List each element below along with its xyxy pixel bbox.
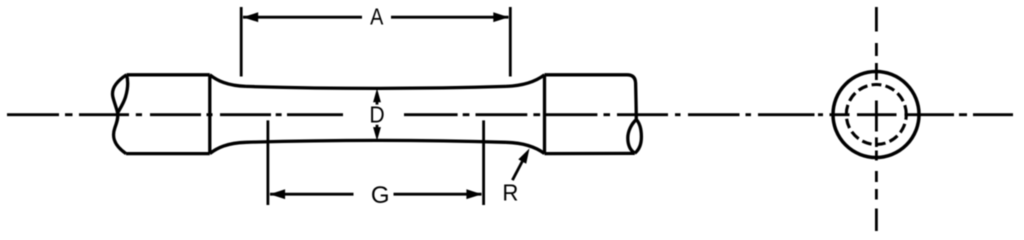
reduced section top line (246, 86, 506, 88)
top fillet right (506, 75, 545, 87)
arrowhead R leader (518, 148, 529, 163)
dimension G extension line right (482, 120, 485, 205)
left end outer break arc (112, 75, 126, 154)
right grip top line with rounded corner (545, 75, 637, 120)
right end outer break arc (635, 120, 642, 154)
arrowhead D down (373, 127, 381, 141)
left shoulder line (208, 75, 211, 154)
dimension G line right segment (394, 193, 482, 196)
right shoulder line (543, 75, 546, 154)
arrowhead G left (270, 189, 286, 199)
reduced section bottom line (246, 140, 506, 142)
bottom fillet left (210, 142, 246, 153)
left grip top line (127, 73, 210, 76)
left end break lens inner arc (118, 75, 128, 113)
center mark horizontal (857, 113, 897, 116)
top fillet left (210, 75, 246, 87)
center mark vertical (875, 101, 878, 132)
dimension A line right segment (391, 16, 509, 19)
R leader line (512, 161, 522, 180)
dimension A line left segment (243, 16, 362, 19)
arrowhead G right (466, 189, 482, 199)
arrowhead D up (373, 88, 381, 102)
horizontal center line (7, 113, 850, 116)
bottom fillet right (506, 142, 545, 153)
center line right of circle (905, 113, 1014, 116)
inner dashed circle (end view) (846, 85, 906, 145)
arrowhead A right (493, 12, 509, 22)
svg-text:A: A (370, 4, 384, 30)
left grip bottom line (126, 152, 210, 155)
arrowhead A left (243, 12, 259, 22)
vertical center line (end view) (875, 7, 878, 231)
right end break lens left arc (628, 120, 637, 154)
dimension G extension line left (266, 120, 269, 205)
svg-text:R: R (502, 180, 518, 206)
dimension G line left segment (270, 193, 354, 196)
dimension A extension line left (240, 7, 243, 77)
dimension D arrow shafts (376, 100, 379, 130)
svg-text:D: D (369, 102, 384, 128)
right grip bottom line (545, 152, 635, 156)
outer circle (end view) (833, 72, 919, 158)
svg-text:G: G (371, 182, 390, 209)
dimension A extension line right (509, 7, 512, 77)
